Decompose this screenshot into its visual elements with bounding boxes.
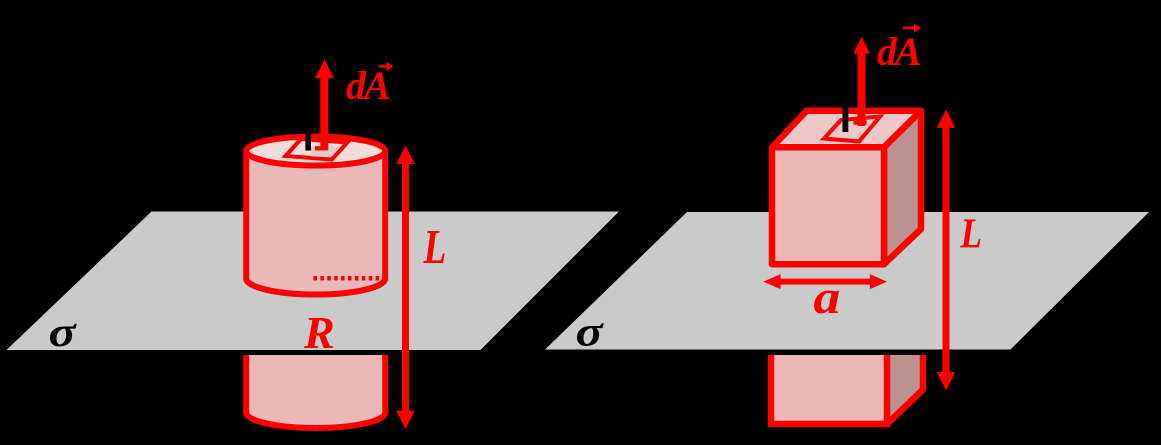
box top face [772,111,921,148]
svg-text:σ: σ [49,310,78,356]
svg-text:σ: σ [576,309,605,355]
dA area element on cylinder top [286,139,348,160]
svg-text:L: L [423,220,447,274]
label dA left with vector arrow [346,62,394,108]
dA arrow left [315,60,334,151]
svg-text:dA: dA [346,63,390,108]
cylinder top ellipse [246,137,385,166]
left charged plane (sigma) [7,212,620,351]
right charged plane (sigma) [545,212,1149,350]
black stub right [843,107,849,132]
svg-text:L: L [960,211,982,258]
dotted radius line R [314,276,384,281]
svg-text:R: R [303,307,335,358]
svg-text:a: a [814,272,841,325]
box front face [772,147,884,264]
dA area element on box top [824,117,880,142]
dA arrow right [853,37,870,126]
box lower piece (below plane) [771,355,923,424]
shaded inner part of area element [311,146,340,157]
box right face [884,111,921,264]
svg-text:dA: dA [877,29,921,74]
L arrow left (double headed) [396,146,415,430]
label dA right with vector arrow [877,24,921,75]
cylinder body (above plane) [246,151,385,295]
a arrow (double headed horizontal) [763,274,887,289]
black stub left [305,128,311,151]
cylinder lower piece (below plane) [246,355,385,428]
L arrow right (double headed) [937,110,956,391]
